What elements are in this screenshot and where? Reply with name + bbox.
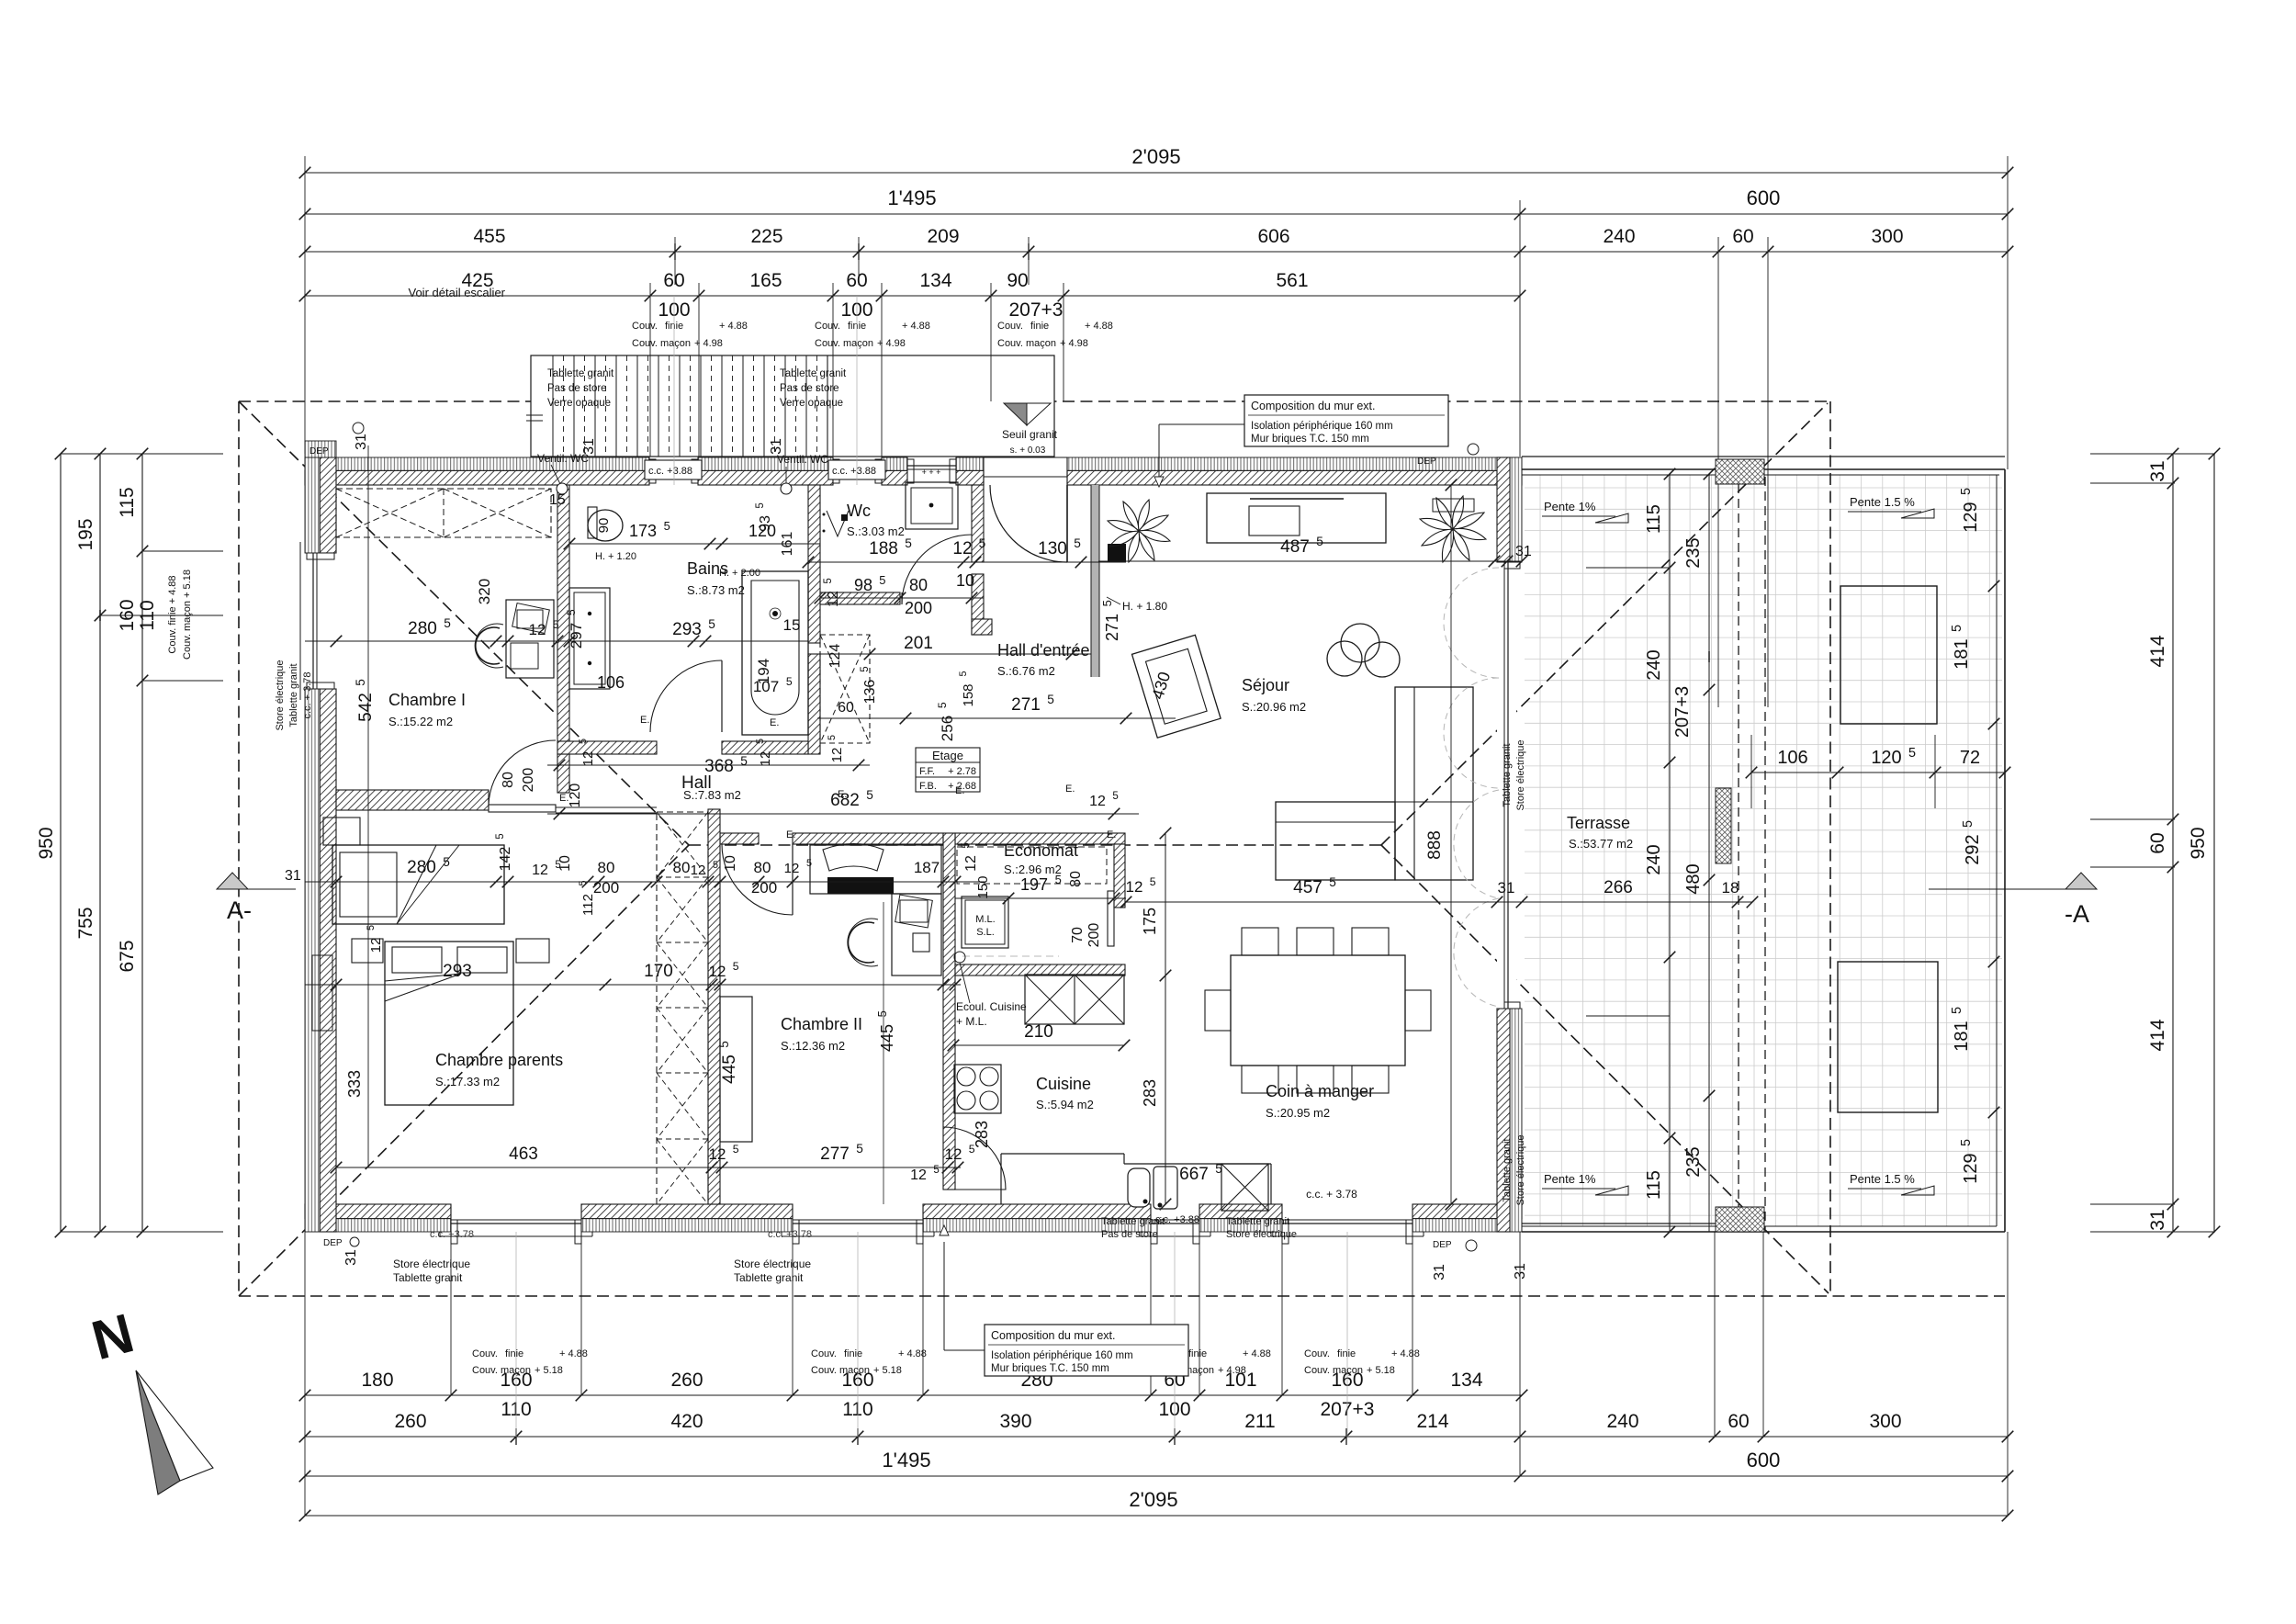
svg-text:1'495: 1'495 — [887, 186, 936, 209]
svg-text:606: 606 — [1257, 226, 1289, 247]
svg-text:+ 4.88: + 4.88 — [902, 321, 930, 332]
svg-text:445: 445 — [720, 1054, 739, 1084]
svg-text:260: 260 — [670, 1370, 703, 1391]
svg-text:Coin à manger: Coin à manger — [1266, 1082, 1374, 1100]
svg-text:5: 5 — [879, 573, 885, 587]
svg-text:675: 675 — [117, 940, 138, 972]
svg-text:S.:2.96 m2: S.:2.96 m2 — [1004, 863, 1062, 876]
svg-text:+ 4.88: + 4.88 — [719, 321, 748, 332]
svg-text:5: 5 — [578, 739, 589, 744]
svg-text:c.c. +3.78: c.c. +3.78 — [430, 1229, 474, 1240]
svg-text:S.:6.76 m2: S.:6.76 m2 — [997, 664, 1055, 678]
svg-text:Chambre II: Chambre II — [781, 1015, 862, 1033]
svg-text:414: 414 — [2147, 1019, 2168, 1051]
svg-text:S.:17.33 m2: S.:17.33 m2 — [435, 1075, 500, 1088]
svg-text:Store électrique: Store électrique — [734, 1257, 811, 1270]
svg-text:2'095: 2'095 — [1131, 145, 1180, 168]
svg-text:12: 12 — [529, 621, 546, 638]
svg-text:480: 480 — [1683, 863, 1704, 894]
svg-text:c.c. +3.88: c.c. +3.88 — [832, 466, 876, 477]
svg-text:Tablette granit: Tablette granit — [547, 368, 614, 379]
svg-text:5: 5 — [1316, 535, 1323, 548]
svg-text:finie: finie — [1337, 1348, 1356, 1359]
svg-text:+ 2.68: + 2.68 — [948, 781, 976, 792]
svg-text:Composition du mur ext.: Composition du mur ext. — [991, 1329, 1115, 1342]
svg-text:15: 15 — [549, 492, 566, 508]
svg-text:5: 5 — [443, 855, 450, 869]
svg-text:Couv. maçon: Couv. maçon — [632, 338, 691, 349]
svg-text:12: 12 — [784, 861, 800, 876]
svg-text:130: 130 — [1038, 539, 1067, 558]
svg-text:115: 115 — [1644, 1170, 1664, 1200]
svg-text:+ 5.18: + 5.18 — [1367, 1365, 1395, 1376]
svg-text:Pente 1.5 %: Pente 1.5 % — [1850, 1172, 1915, 1186]
svg-text:5: 5 — [565, 609, 578, 615]
svg-text:Seuil granit: Seuil granit — [1002, 428, 1058, 441]
svg-text:H. + 2.00: H. + 2.00 — [719, 568, 760, 579]
svg-text:72: 72 — [1960, 748, 1980, 768]
svg-text:12: 12 — [945, 1145, 962, 1163]
svg-text:H. + 1.20: H. + 1.20 — [595, 551, 636, 562]
svg-text:5: 5 — [969, 1143, 975, 1156]
svg-text:271: 271 — [1011, 695, 1041, 715]
svg-text:283: 283 — [1141, 1079, 1159, 1107]
svg-text:5: 5 — [936, 702, 949, 708]
svg-text:90: 90 — [1007, 270, 1028, 291]
svg-text:Couv. maçon: Couv. maçon — [815, 338, 873, 349]
svg-text:S.:53.77 m2: S.:53.77 m2 — [1569, 837, 1633, 851]
svg-text:Pente 1%: Pente 1% — [1544, 500, 1596, 513]
svg-text:115: 115 — [117, 487, 138, 517]
svg-text:Tablette granit: Tablette granit — [1502, 743, 1513, 806]
svg-text:188: 188 — [869, 539, 898, 558]
svg-text:Pas de store: Pas de store — [547, 383, 607, 394]
svg-text:173: 173 — [629, 522, 657, 540]
svg-text:15: 15 — [783, 616, 801, 634]
svg-text:5: 5 — [664, 519, 670, 533]
svg-text:425: 425 — [461, 270, 493, 291]
svg-text:Couv.: Couv. — [472, 1348, 498, 1359]
svg-text:12: 12 — [829, 748, 845, 763]
svg-text:F.F.: F.F. — [919, 766, 935, 777]
svg-text:Tablette granit: Tablette granit — [734, 1271, 804, 1284]
svg-text:+ 5.18: + 5.18 — [873, 1365, 902, 1376]
svg-text:S.:7.83 m2: S.:7.83 m2 — [683, 788, 741, 802]
svg-text:142: 142 — [498, 847, 513, 872]
svg-text:200: 200 — [521, 768, 536, 793]
svg-text:12: 12 — [1126, 878, 1143, 896]
svg-text:10: 10 — [723, 855, 738, 872]
svg-text:c.c. + 3.78: c.c. + 3.78 — [302, 671, 313, 718]
svg-text:136: 136 — [862, 680, 878, 705]
svg-text:S.:20.96 m2: S.:20.96 m2 — [1242, 700, 1306, 714]
svg-text:E.: E. — [770, 717, 779, 728]
svg-text:5: 5 — [708, 617, 715, 631]
svg-text:Store électrique: Store électrique — [275, 660, 286, 730]
svg-text:80: 80 — [1068, 871, 1084, 887]
svg-text:200: 200 — [751, 879, 777, 897]
svg-text:600: 600 — [1747, 186, 1781, 209]
svg-text:225: 225 — [750, 226, 782, 247]
svg-text:+ 4.88: + 4.88 — [1243, 1348, 1271, 1359]
svg-text:12: 12 — [368, 938, 384, 953]
svg-text:S.:5.94 m2: S.:5.94 m2 — [1036, 1098, 1094, 1111]
svg-text:18: 18 — [1722, 879, 1739, 897]
svg-text:180: 180 — [361, 1370, 393, 1391]
svg-text:Couv. maçon: Couv. maçon — [472, 1365, 531, 1376]
svg-text:F.B.: F.B. — [919, 781, 937, 792]
svg-text:31: 31 — [2147, 460, 2168, 481]
svg-text:445: 445 — [878, 1024, 896, 1052]
svg-text:Isolation périphérique 160: Isolation périphérique 160 mm — [1251, 421, 1393, 432]
svg-text:+ M.L.: + M.L. — [956, 1015, 987, 1028]
svg-text:197: 197 — [1020, 875, 1048, 894]
svg-text:Chambre parents: Chambre parents — [435, 1051, 563, 1069]
svg-text:c.c. +3.78: c.c. +3.78 — [768, 1229, 812, 1240]
svg-text:80: 80 — [754, 859, 771, 876]
svg-text:292: 292 — [1963, 834, 1983, 864]
svg-text:2'095: 2'095 — [1129, 1488, 1177, 1511]
svg-text:390: 390 — [999, 1411, 1031, 1432]
svg-text:165: 165 — [749, 270, 782, 291]
svg-text:134: 134 — [1450, 1370, 1482, 1391]
svg-text:368: 368 — [704, 757, 734, 776]
svg-text:S.:3.03 m2: S.:3.03 m2 — [847, 524, 905, 538]
svg-text:Tablette granit: Tablette granit — [288, 663, 299, 727]
svg-text:5: 5 — [905, 536, 912, 550]
svg-text:5: 5 — [1950, 625, 1964, 632]
svg-text:Verre opaque: Verre opaque — [780, 398, 843, 409]
svg-text:12: 12 — [709, 1145, 726, 1163]
svg-text:Couv.: Couv. — [815, 321, 840, 332]
svg-text:Terrasse: Terrasse — [1567, 814, 1630, 832]
svg-text:Mur briques T.C. 150: Mur briques T.C. 150 mm — [991, 1363, 1109, 1374]
svg-text:5: 5 — [1961, 820, 1975, 828]
svg-text:5: 5 — [860, 666, 871, 671]
svg-text:5: 5 — [856, 1142, 863, 1156]
svg-text:DEP: DEP — [1433, 1240, 1452, 1250]
svg-text:211: 211 — [1244, 1411, 1275, 1432]
svg-text:+ 4.98: + 4.98 — [1218, 1365, 1246, 1376]
svg-text:181: 181 — [1952, 638, 1972, 669]
svg-text:Chambre I: Chambre I — [388, 691, 466, 709]
svg-text:31: 31 — [1432, 1264, 1447, 1280]
svg-text:12: 12 — [532, 863, 548, 878]
svg-text:235: 235 — [1683, 1146, 1704, 1177]
svg-text:80: 80 — [598, 859, 615, 876]
svg-text:5: 5 — [933, 1165, 939, 1176]
svg-text:266: 266 — [1604, 878, 1633, 897]
svg-text:E.: E. — [640, 715, 649, 726]
svg-text:5: 5 — [823, 578, 834, 583]
svg-text:70: 70 — [1070, 927, 1086, 943]
svg-text:Pente 1%: Pente 1% — [1544, 1172, 1596, 1186]
svg-text:DEP: DEP — [310, 446, 329, 457]
svg-text:31: 31 — [1515, 544, 1532, 559]
svg-text:210: 210 — [1024, 1022, 1053, 1042]
svg-text:888: 888 — [1425, 830, 1445, 860]
svg-text:+ 5.18: + 5.18 — [535, 1365, 563, 1376]
svg-text:10: 10 — [956, 571, 974, 590]
svg-text:5: 5 — [740, 754, 748, 768]
svg-text:561: 561 — [1276, 270, 1308, 291]
svg-text:487: 487 — [1280, 537, 1310, 557]
svg-text:667: 667 — [1179, 1165, 1209, 1184]
svg-text:Couv. maçon: Couv. maçon — [1304, 1365, 1363, 1376]
svg-text:Couv.: Couv. — [997, 321, 1023, 332]
svg-text:200: 200 — [593, 879, 619, 897]
svg-text:12: 12 — [952, 539, 972, 558]
svg-text:214: 214 — [1416, 1411, 1448, 1432]
svg-text:Tablette granit: Tablette granit — [780, 368, 847, 379]
svg-text:5: 5 — [958, 671, 969, 676]
svg-text:+ 2.78: + 2.78 — [948, 766, 976, 777]
svg-text:170: 170 — [644, 962, 673, 981]
svg-text:5: 5 — [713, 860, 718, 871]
svg-text:120: 120 — [568, 784, 583, 808]
svg-text:12: 12 — [758, 751, 773, 767]
svg-text:5: 5 — [578, 880, 589, 885]
svg-text:5: 5 — [827, 735, 838, 740]
svg-text:187: 187 — [914, 859, 940, 876]
svg-text:+ 4.88: + 4.88 — [898, 1348, 927, 1359]
svg-text:283: 283 — [973, 1121, 991, 1148]
svg-text:207+3: 207+3 — [1009, 299, 1064, 321]
svg-text:80: 80 — [909, 576, 928, 594]
svg-text:31: 31 — [1498, 879, 1515, 897]
svg-text:Couv.: Couv. — [811, 1348, 837, 1359]
svg-text:S.:15.22 m2: S.:15.22 m2 — [388, 715, 453, 728]
svg-text:5: 5 — [1150, 875, 1156, 888]
svg-text:M.L.: M.L. — [975, 914, 995, 925]
svg-text:60: 60 — [1732, 226, 1753, 247]
svg-text:271: 271 — [1103, 614, 1121, 641]
svg-text:Verre opaque: Verre opaque — [547, 398, 611, 409]
svg-text:Mur briques T.C. 150: Mur briques T.C. 150 mm — [1251, 434, 1369, 445]
svg-text:S.:8.73 m2: S.:8.73 m2 — [687, 583, 745, 597]
svg-text:420: 420 — [670, 1411, 703, 1432]
svg-text:60: 60 — [846, 270, 867, 291]
svg-text:12: 12 — [910, 1167, 927, 1183]
svg-text:950: 950 — [2188, 827, 2209, 859]
svg-text:457: 457 — [1293, 878, 1322, 897]
svg-text:90: 90 — [596, 518, 612, 534]
svg-text:60: 60 — [1728, 1411, 1749, 1432]
svg-text:160: 160 — [117, 599, 138, 631]
svg-text:240: 240 — [1644, 844, 1664, 874]
svg-text:A-: A- — [227, 897, 252, 924]
svg-text:5: 5 — [1959, 488, 1974, 495]
svg-text:12: 12 — [580, 751, 596, 767]
svg-text:Couv.: Couv. — [632, 321, 658, 332]
svg-text:12: 12 — [963, 855, 979, 872]
svg-text:Etage: Etage — [932, 749, 963, 762]
svg-text:112: 112 — [580, 894, 596, 916]
svg-text:Store électrique: Store électrique — [1226, 1229, 1297, 1240]
svg-text:31: 31 — [581, 438, 597, 455]
svg-text:-A: -A — [2065, 900, 2089, 928]
svg-text:E.: E. — [786, 829, 795, 840]
svg-text:Isolation périphérique 160: Isolation périphérique 160 mm — [991, 1350, 1133, 1361]
svg-text:320: 320 — [476, 579, 493, 604]
svg-text:c.c. + 3.78: c.c. + 3.78 — [1306, 1188, 1357, 1201]
svg-text:115: 115 — [1644, 504, 1664, 534]
svg-text:Pas de store: Pas de store — [780, 383, 839, 394]
svg-text:134: 134 — [919, 270, 951, 291]
svg-text:S.:12.36 m2: S.:12.36 m2 — [781, 1039, 845, 1053]
svg-text:120: 120 — [1871, 748, 1901, 768]
svg-text:235: 235 — [1683, 537, 1704, 568]
svg-text:31: 31 — [2147, 1209, 2168, 1230]
svg-text:Economat: Economat — [1004, 841, 1078, 860]
svg-text:110: 110 — [137, 600, 158, 630]
svg-text:195: 195 — [75, 518, 96, 550]
svg-text:Couv. finie + 4.88: Couv. finie + 4.88 — [167, 575, 178, 653]
svg-text:E.: E. — [1065, 784, 1075, 795]
svg-text:5: 5 — [1112, 791, 1118, 802]
svg-text:5: 5 — [444, 616, 451, 630]
svg-text:5: 5 — [755, 502, 766, 508]
svg-text:542: 542 — [356, 693, 376, 722]
svg-text:129: 129 — [1961, 1153, 1981, 1183]
svg-text:12: 12 — [709, 963, 726, 980]
svg-text:Couv.: Couv. — [1304, 1348, 1330, 1359]
svg-text:Séjour: Séjour — [1242, 676, 1289, 694]
svg-text:5: 5 — [553, 618, 559, 631]
svg-text:463: 463 — [509, 1145, 538, 1164]
svg-text:finie: finie — [1030, 321, 1049, 332]
svg-text:5: 5 — [1950, 1007, 1964, 1014]
svg-text:5: 5 — [961, 842, 972, 848]
svg-text:31: 31 — [343, 1249, 359, 1266]
svg-text:finie: finie — [844, 1348, 862, 1359]
svg-text:107: 107 — [753, 678, 779, 695]
svg-text:5: 5 — [733, 960, 739, 973]
svg-text:31: 31 — [769, 438, 784, 455]
svg-text:Tablette granit: Tablette granit — [393, 1271, 463, 1284]
svg-text:5: 5 — [717, 1041, 731, 1048]
svg-text:10: 10 — [557, 855, 573, 872]
svg-text:124: 124 — [827, 644, 843, 669]
svg-text:300: 300 — [1871, 226, 1903, 247]
svg-text:Pas de store: Pas de store — [1101, 1229, 1158, 1240]
svg-text:106: 106 — [1777, 748, 1807, 768]
svg-text:181: 181 — [1952, 1021, 1972, 1051]
svg-text:950: 950 — [36, 827, 57, 859]
svg-text:5: 5 — [866, 788, 873, 802]
svg-text:31: 31 — [285, 868, 301, 884]
svg-text:Tablette granit: Tablette granit — [1502, 1138, 1513, 1201]
svg-text:12: 12 — [691, 863, 706, 878]
svg-text:293: 293 — [672, 620, 702, 639]
svg-text:277: 277 — [820, 1145, 850, 1164]
svg-text:+ 4.98: + 4.98 — [1060, 338, 1088, 349]
svg-text:5: 5 — [1329, 875, 1336, 889]
svg-text:s. + 0.03: s. + 0.03 — [1010, 445, 1046, 456]
svg-text:Wc: Wc — [847, 502, 871, 520]
svg-text:5: 5 — [1047, 693, 1054, 706]
svg-text:200: 200 — [1086, 923, 1102, 948]
svg-text:Composition du mur ext.: Composition du mur ext. — [1251, 400, 1375, 412]
svg-text:209: 209 — [927, 226, 959, 247]
svg-text:Ecoul. Cuisine: Ecoul. Cuisine — [956, 1000, 1027, 1013]
svg-text:60: 60 — [838, 700, 854, 716]
svg-text:DEP: DEP — [323, 1238, 343, 1248]
svg-text:455: 455 — [473, 226, 505, 247]
svg-text:256: 256 — [939, 716, 956, 741]
svg-text:5: 5 — [1908, 746, 1916, 761]
svg-text:Couv. maçon: Couv. maçon — [811, 1365, 870, 1376]
svg-text:755: 755 — [75, 907, 96, 939]
svg-text:98: 98 — [854, 576, 872, 594]
svg-text:106: 106 — [597, 673, 625, 692]
svg-text:5: 5 — [1959, 1139, 1974, 1146]
svg-text:200: 200 — [905, 599, 932, 617]
svg-text:finie: finie — [505, 1348, 523, 1359]
svg-text:175: 175 — [1141, 908, 1159, 935]
svg-text:300: 300 — [1869, 1411, 1901, 1432]
svg-text:+ 4.88: + 4.88 — [1085, 321, 1113, 332]
svg-text:Tablette granit: Tablette granit — [1226, 1216, 1289, 1227]
svg-text:E.: E. — [1107, 829, 1116, 840]
svg-text:5: 5 — [979, 536, 986, 550]
svg-text:80: 80 — [673, 859, 691, 876]
svg-text:+ 4.88: + 4.88 — [559, 1348, 588, 1359]
svg-text:5: 5 — [1074, 536, 1081, 550]
svg-text:12: 12 — [1089, 794, 1106, 809]
svg-text:333: 333 — [345, 1070, 364, 1098]
svg-text:Pente 1.5 %: Pente 1.5 % — [1850, 495, 1915, 509]
svg-text:31: 31 — [354, 434, 369, 450]
svg-text:60: 60 — [2147, 832, 2168, 853]
svg-text:280: 280 — [407, 858, 436, 877]
svg-text:5: 5 — [366, 925, 377, 930]
svg-text:5: 5 — [755, 739, 766, 744]
svg-text:280: 280 — [408, 619, 437, 638]
svg-text:158: 158 — [961, 683, 976, 706]
svg-text:293: 293 — [443, 962, 472, 981]
svg-text:60: 60 — [663, 270, 684, 291]
svg-text:31: 31 — [1513, 1263, 1528, 1280]
svg-text:S.:20.95 m2: S.:20.95 m2 — [1266, 1106, 1330, 1120]
svg-text:Store électrique: Store électrique — [393, 1257, 470, 1270]
svg-text:c.c. +3.88: c.c. +3.88 — [1155, 1214, 1199, 1225]
svg-text:682: 682 — [830, 791, 860, 810]
svg-text:161: 161 — [780, 532, 795, 557]
svg-text:5: 5 — [786, 675, 793, 688]
svg-text:Store électrique: Store électrique — [1515, 739, 1526, 810]
svg-text:Couv. maçon + 5.18: Couv. maçon + 5.18 — [182, 570, 193, 660]
svg-text:S.L.: S.L. — [976, 927, 995, 938]
svg-text:240: 240 — [1644, 649, 1664, 680]
svg-text:201: 201 — [904, 634, 933, 653]
svg-text:600: 600 — [1747, 1449, 1781, 1472]
svg-text:5: 5 — [1055, 873, 1062, 886]
svg-text:+ + +: + + + — [922, 468, 941, 477]
svg-text:Cuisine: Cuisine — [1036, 1075, 1091, 1093]
svg-text:5: 5 — [875, 1010, 889, 1017]
svg-text:Couv. maçon: Couv. maçon — [997, 338, 1056, 349]
svg-text:207+3: 207+3 — [1672, 686, 1693, 738]
svg-text:80: 80 — [501, 772, 516, 788]
svg-text:H. + 1.80: H. + 1.80 — [1122, 600, 1167, 613]
svg-text:DEP: DEP — [1417, 457, 1436, 467]
svg-text:12: 12 — [826, 591, 841, 607]
svg-text:5: 5 — [1215, 1162, 1222, 1176]
svg-text:240: 240 — [1603, 226, 1635, 247]
svg-text:260: 260 — [394, 1411, 426, 1432]
svg-text:Store électrique: Store électrique — [1515, 1134, 1526, 1205]
